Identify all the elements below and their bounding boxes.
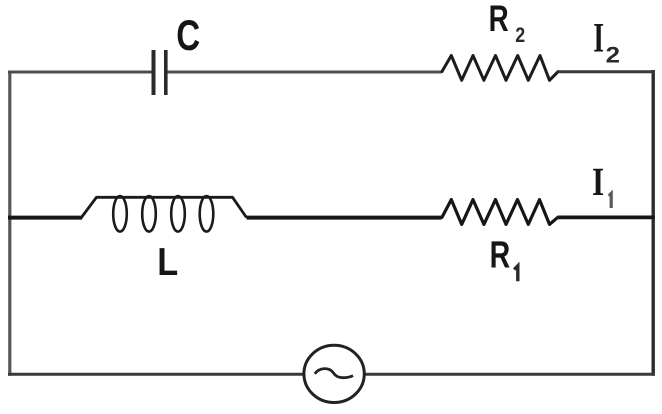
svg-text:R: R — [490, 235, 511, 277]
svg-text:2: 2 — [606, 43, 620, 68]
svg-text:I: I — [593, 15, 604, 61]
svg-text:2: 2 — [515, 24, 525, 47]
svg-text:I: I — [592, 159, 604, 204]
svg-text:C: C — [176, 12, 200, 60]
svg-text:R: R — [489, 0, 509, 39]
svg-text:L: L — [157, 241, 178, 284]
